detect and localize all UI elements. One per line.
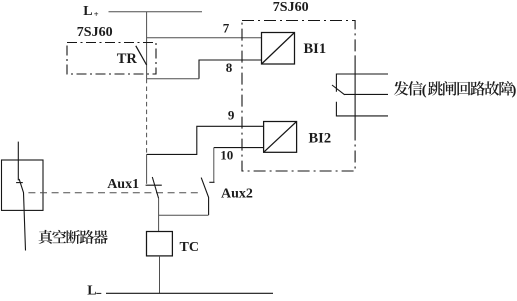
label 真空断路器 (vacuum circuit breaker) (39, 230, 108, 244)
wire: vertical into Aux1 (146, 154, 148, 183)
wire: L+ top rail (109, 11, 203, 13)
mechanical linkage dashed line (28, 192, 202, 194)
svg-text:8: 8 (226, 60, 233, 75)
svg-text:7SJ60: 7SJ60 (77, 25, 113, 40)
svg-text:+: + (94, 9, 99, 19)
trip coil TC box (147, 232, 173, 256)
svg-text:7: 7 (223, 21, 230, 36)
wire: terminal 8 (199, 60, 262, 79)
breaker box (vacuum circuit breaker) (2, 160, 44, 210)
output contact NC throw (top) (336, 74, 388, 92)
wire: dashed vertical trip path below TR (146, 79, 148, 155)
relay box TR (dash-dot) (67, 43, 156, 75)
svg-text:TR: TR (117, 51, 138, 67)
breaker contact seat (16, 182, 23, 184)
contact TR blade (136, 46, 147, 65)
wire: TC down to L- rail (159, 256, 161, 293)
output contact NO throw (bottom) (336, 102, 388, 116)
label 发信 (signal annunciation) (394, 81, 423, 96)
binary input BI2 (264, 122, 297, 153)
wire: terminal 10 down to Aux2 (213, 148, 215, 182)
svg-text:7SJ60: 7SJ60 (273, 0, 309, 15)
auxiliary contact Aux2 seat (209, 181, 214, 183)
svg-text:Aux1: Aux1 (107, 177, 139, 192)
wire: L- bottom rail (106, 292, 273, 294)
wire: Aux2 return to TC node (159, 214, 209, 216)
svg-text:(: ( (422, 83, 427, 99)
breaker contact blade (19, 179, 25, 251)
output contact common (middle) (345, 93, 389, 95)
binary input BI1 (262, 33, 295, 65)
relay box 7SJ60 (dash-dot) (242, 21, 355, 172)
output contact vertical (on box right edge) (354, 57, 356, 129)
auxiliary contact Aux1 seat (146, 184, 162, 186)
wire: breaker stub (17, 142, 19, 181)
wire: terminal 9 (147, 126, 264, 154)
svg-text:L: L (87, 283, 96, 296)
output contact blade (332, 85, 345, 95)
wire: left vertical bus from L+ through TR (146, 12, 148, 79)
auxiliary contact Aux2 blade (201, 178, 208, 215)
svg-text:BI2: BI2 (309, 131, 332, 147)
svg-text:TC: TC (180, 240, 199, 255)
svg-text:L: L (83, 4, 92, 19)
svg-text:): ) (512, 83, 517, 99)
wire: jog from TR node to terminal 8 (147, 78, 199, 80)
svg-text:10: 10 (220, 148, 233, 163)
svg-text:9: 9 (228, 107, 235, 122)
svg-text:Aux2: Aux2 (221, 187, 253, 202)
wire: terminal 7 (147, 37, 262, 39)
auxiliary contact Aux1 blade (152, 177, 158, 198)
label 跳闸回路故障 (trip circuit fault) (428, 81, 513, 96)
wire: Aux1 down to TC (158, 198, 160, 231)
svg-text:BI1: BI1 (304, 41, 327, 57)
wire: terminal 10 (214, 147, 264, 149)
